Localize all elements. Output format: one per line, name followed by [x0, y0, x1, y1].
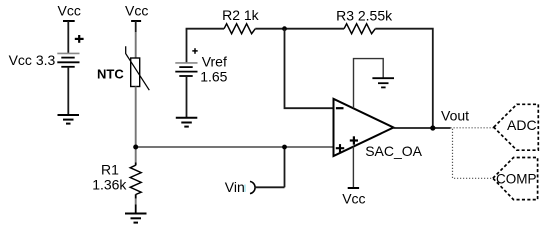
junction node A (NTC / R1 / op-amp + wire)	[133, 145, 138, 150]
wire Vin to junction on + input	[284, 147, 286, 187]
battery V1 Vcc 3.3	[9, 35, 84, 68]
junction (Vin joins + input wire)	[282, 145, 287, 150]
wire Vref to ground	[186, 76, 188, 118]
wire R2 to node B	[255, 28, 284, 30]
ground (op-amp V- pin)	[372, 78, 394, 87]
power symbol Vcc (below op-amp)	[342, 188, 365, 207]
dotted wire Vout to ADC	[451, 127, 494, 129]
voltage source Vref 1.65	[175, 29, 227, 85]
svg-text:1.65: 1.65	[200, 69, 227, 85]
resistor R3 2.55k	[336, 8, 393, 34]
wire node B down to - input	[285, 29, 335, 109]
svg-text:Vout: Vout	[441, 107, 469, 123]
svg-text:Vin: Vin	[225, 179, 245, 195]
svg-text:R3 2.55k: R3 2.55k	[336, 8, 393, 24]
svg-text:1.36k: 1.36k	[92, 177, 127, 193]
wire R1 to ground	[135, 194, 137, 198]
wire battery V1 to ground	[67, 67, 69, 115]
input port Vin	[225, 179, 285, 195]
svg-text:R1: R1	[101, 162, 119, 178]
peripheral tag ADC	[494, 104, 539, 150]
junction node B (R2 / R3 / - input)	[282, 26, 287, 31]
wire node A to op-amp + input	[136, 146, 334, 148]
svg-text:Vcc: Vcc	[58, 3, 81, 19]
power symbol Vcc (over NTC)	[125, 2, 148, 32]
svg-text:Vcc 3.3: Vcc 3.3	[9, 52, 56, 68]
svg-text:Vref: Vref	[202, 54, 227, 70]
op-amp U1 SAC_OA	[334, 99, 423, 159]
svg-text:ADC: ADC	[507, 117, 537, 133]
ground (below V1)	[58, 115, 80, 124]
wire op-amp V+ pin to Vcc	[352, 147, 354, 189]
wire node A to R1	[135, 147, 137, 163]
svg-text:Vcc: Vcc	[125, 2, 148, 18]
wire Vref to R2	[186, 28, 225, 30]
peripheral tag COMP	[493, 158, 538, 200]
ground (below R1)	[125, 214, 147, 223]
wire NTC to node A	[135, 87, 137, 148]
wire node B to R3	[285, 28, 345, 30]
ground (below Vref)	[176, 118, 198, 127]
resistor R1 1.36k	[92, 162, 141, 195]
svg-text:SAC_OA: SAC_OA	[365, 143, 422, 159]
svg-text:NTC: NTC	[97, 67, 124, 82]
svg-text:COMP: COMP	[496, 172, 537, 187]
thermistor NTC	[97, 46, 149, 90]
wire op-amp output to Vout	[394, 127, 451, 129]
power symbol Vcc (over V1 battery)	[58, 3, 81, 54]
wire op-amp V- pin to ground bracket	[354, 59, 384, 109]
resistor R2 1k	[222, 7, 260, 34]
svg-text:Vcc: Vcc	[342, 191, 365, 207]
dotted wire Vout to COMP	[453, 129, 493, 179]
wire R3 to feedback corner	[375, 29, 433, 128]
wire Vcc to NTC	[135, 32, 137, 58]
junction node Vout	[430, 125, 435, 130]
svg-text:R2 1k: R2 1k	[222, 7, 260, 23]
